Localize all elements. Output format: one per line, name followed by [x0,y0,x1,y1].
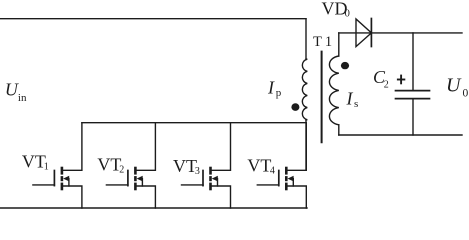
wire: secondary top rail through diode [339,32,462,34]
wire: secondary bottom rail [339,134,462,136]
diode VD0 triangle [356,19,371,47]
capacitor C2 top lead [412,33,414,90]
label Uin [5,80,27,104]
transformer T1 core [321,52,323,143]
svg-text:T1: T1 [313,34,335,50]
svg-text:2: 2 [384,80,389,91]
transistor VT3 [182,123,231,208]
wire: primary top drop [305,19,307,59]
transformer T1 primary winding [302,59,307,120]
svg-text:s: s [354,98,358,110]
capacitor C2 bottom plate [396,98,430,100]
svg-text:I: I [267,78,275,98]
wire: secondary bottom drop [338,125,340,135]
label VT1 [22,151,49,172]
wire: bottom source bus [0,207,307,209]
label U0 [446,74,469,99]
svg-text:VT: VT [247,155,271,175]
wire: secondary top drop from diode anode [338,33,340,56]
transistor VT4 [257,123,306,208]
wire: top input bus [0,18,306,20]
wire: drain bus [82,122,306,124]
svg-text:U: U [446,74,462,96]
svg-text:0: 0 [463,88,469,100]
capacitor C2 polarity plus [397,75,405,85]
transistor VT2 [106,123,155,208]
transistor VT1 [33,123,82,208]
label VT4 [247,155,275,176]
node: primary polarity dot [291,103,299,111]
svg-text:1: 1 [44,161,49,172]
label Is [346,88,359,110]
svg-text:4: 4 [270,166,275,177]
svg-text:VT: VT [22,151,46,171]
node: secondary polarity dot [341,62,349,69]
svg-text:VT: VT [97,155,121,175]
label VT3 [173,156,200,177]
svg-text:0: 0 [345,8,350,19]
label VT2 [97,155,124,176]
svg-text:VD: VD [322,0,348,19]
wire: primary bottom drop to VT4 drain [305,120,307,170]
capacitor C2 bottom lead [412,99,414,135]
diode VD0 cathode bar [370,19,372,47]
label Ip [267,78,282,100]
svg-text:in: in [18,92,27,104]
svg-text:U: U [5,80,19,100]
label VD0 [322,0,350,19]
svg-text:p: p [276,87,282,99]
label C2 [373,67,389,90]
svg-text:VT: VT [173,156,197,176]
capacitor C2 top plate [396,90,430,92]
svg-text:I: I [346,88,354,108]
svg-text:2: 2 [119,165,124,176]
svg-text:3: 3 [195,166,200,177]
transformer T1 secondary winding [329,56,338,125]
